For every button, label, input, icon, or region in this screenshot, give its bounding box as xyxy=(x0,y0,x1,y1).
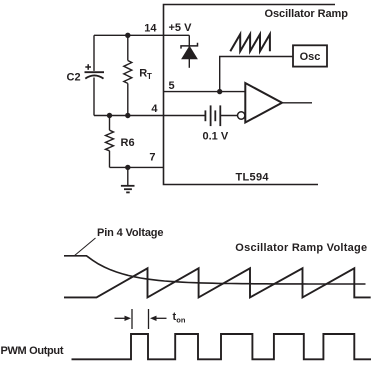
leader line xyxy=(74,238,96,256)
svg-text:T: T xyxy=(147,72,152,81)
resistor RT xyxy=(124,35,132,115)
pin 4 voltage curve xyxy=(64,256,366,284)
svg-text:Oscillator Ramp: Oscillator Ramp xyxy=(265,8,349,20)
right arrow xyxy=(150,316,167,321)
wire pin4 net xyxy=(94,115,205,117)
inverting input bubble xyxy=(238,112,245,119)
wire from +input junction to Osc xyxy=(220,57,293,92)
Osc block xyxy=(293,45,327,66)
label RT xyxy=(139,67,152,81)
svg-text:5: 5 xyxy=(169,80,175,92)
comparator triangle xyxy=(245,83,282,123)
oscillator ramp waveform xyxy=(64,268,371,297)
svg-text:14: 14 xyxy=(144,23,157,35)
comparator output wire xyxy=(282,102,312,104)
ground xyxy=(121,167,135,192)
op-amp U1 TL594 box outline xyxy=(164,5,336,185)
resistor R6 xyxy=(106,116,114,168)
svg-text:R6: R6 xyxy=(121,137,135,149)
svg-text:+5 V: +5 V xyxy=(169,22,193,34)
svg-text:on: on xyxy=(176,316,186,325)
svg-text:C2: C2 xyxy=(67,71,81,83)
zener diode D1 xyxy=(181,35,198,68)
t_on ticks xyxy=(131,309,133,329)
capacitor C2 xyxy=(85,35,105,115)
sawtooth icon (oscillator ramp symbol) xyxy=(230,34,270,51)
PWM output waveform xyxy=(72,334,372,359)
svg-text:PWM Output: PWM Output xyxy=(1,345,64,357)
battery 0.1 V xyxy=(205,105,220,126)
svg-text:TL594: TL594 xyxy=(236,172,270,184)
svg-text:7: 7 xyxy=(149,152,155,164)
svg-text:Osc: Osc xyxy=(300,51,321,63)
wire pin14 net: C2 top to zener xyxy=(94,34,189,36)
left arrow xyxy=(115,316,132,321)
wire pin7 net xyxy=(110,166,164,168)
wire pin5 net xyxy=(164,91,246,93)
junction dots xyxy=(107,33,223,171)
label t_on xyxy=(173,311,186,325)
svg-text:4: 4 xyxy=(151,103,158,115)
svg-text:Oscillator Ramp Voltage: Oscillator Ramp Voltage xyxy=(235,242,367,254)
svg-text:Pin 4 Voltage: Pin 4 Voltage xyxy=(97,227,164,239)
svg-text:0.1 V: 0.1 V xyxy=(203,131,229,143)
